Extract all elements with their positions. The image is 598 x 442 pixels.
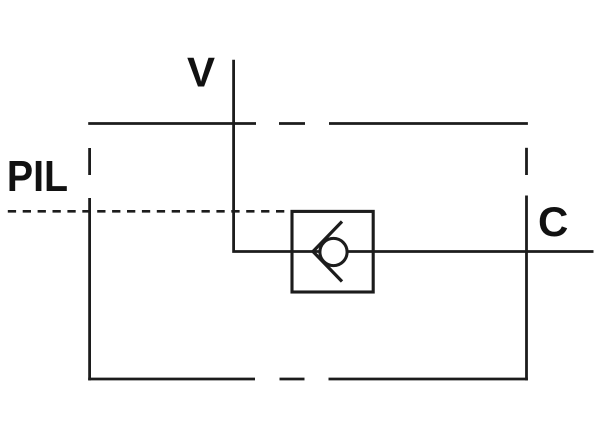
check valve ball (circle) [320, 238, 347, 265]
svg-text:C: C [538, 198, 568, 245]
svg-text:PIL: PIL [7, 153, 68, 201]
envelope top edge dashes [88, 122, 528, 125]
envelope bottom edge dashes [88, 378, 528, 381]
check valve box [292, 211, 373, 292]
pilot line PIL (dashed) [8, 210, 286, 213]
check valve seat (V lines) [312, 222, 342, 253]
envelope right edge dashes [525, 148, 528, 381]
wire: V port vertical line and main flow line to C [234, 60, 594, 252]
envelope left edge dashes [88, 148, 91, 380]
svg-text:V: V [187, 49, 215, 96]
